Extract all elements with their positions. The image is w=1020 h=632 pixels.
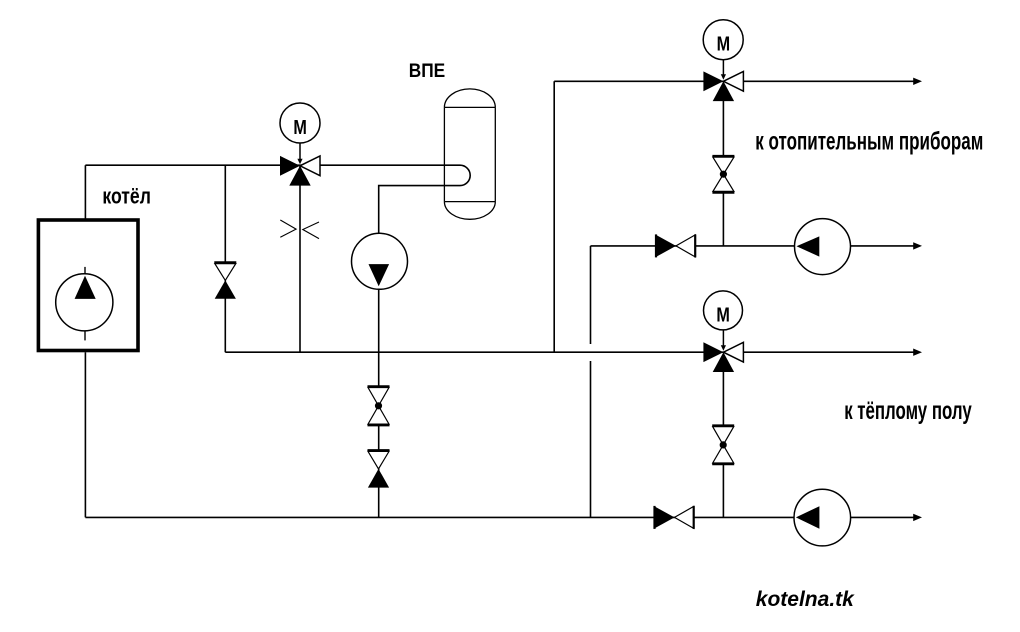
balancing valve V2 top bar xyxy=(368,385,390,387)
svg-text:M: M xyxy=(293,117,307,139)
balancing valve V5 lower cone xyxy=(713,174,734,191)
wire top supply manifold xyxy=(85,164,460,166)
shut-off valve V6 left cone (filled) xyxy=(656,235,676,257)
wire below 3-way valve V7 xyxy=(722,362,724,426)
wire middle manifold with junctions xyxy=(225,351,914,353)
pump P4 impeller triangle (flow left) xyxy=(796,506,820,529)
balancing symbol chevrons on V1 branch xyxy=(280,220,319,239)
pump P3 circle xyxy=(795,219,851,275)
shut-off valve V3 upper cone (open) xyxy=(368,451,389,469)
balancing valve V5 upper cone xyxy=(713,157,734,174)
balancing valve V2 bottom bar xyxy=(368,424,390,426)
svg-text:котёл: котёл xyxy=(102,184,150,209)
svg-text:M: M xyxy=(717,34,731,56)
motor actuator M3 circle xyxy=(704,291,743,330)
wire boiler bottom to bottom manifold xyxy=(84,352,86,517)
wire top-right supply line xyxy=(554,80,914,82)
svg-text:M: M xyxy=(716,304,730,326)
balancing valve V8 bottom bar xyxy=(712,463,734,465)
shut-off valve V3 lower cone (filled) xyxy=(368,469,389,488)
wire tank inlet loop (notch) xyxy=(460,165,470,185)
boiler pump P1 impeller triangle (flow up) xyxy=(75,276,96,299)
3-way valve V4 right port (open) xyxy=(723,71,743,91)
boiler pump P1 stub above xyxy=(84,267,86,278)
arrow supply to floor xyxy=(913,349,922,356)
wire V5 to return line xyxy=(722,193,724,246)
motor M3 stem arrowhead xyxy=(721,345,726,351)
balancing valve V8 center dot xyxy=(720,441,727,448)
shut-off valve V9 right bar xyxy=(693,506,695,529)
svg-text:kotelna.tk: kotelna.tk xyxy=(756,588,855,611)
arrow return from floor xyxy=(913,514,922,521)
balancing valve V2 center dot xyxy=(375,402,382,409)
pump P2 impeller triangle (flow down) xyxy=(369,264,390,286)
wire mid riser upper part xyxy=(590,246,592,344)
wire tank outlet to pump P2 xyxy=(379,186,460,234)
3-way valve V7 right port (open) xyxy=(723,342,743,362)
3-way mixing valve V1 right port (open) xyxy=(300,156,320,176)
3-way valve V7 left port (filled) xyxy=(703,342,723,362)
wire below 3-way valve V1 xyxy=(299,166,301,352)
pump P3 impeller triangle (flow left) xyxy=(797,236,820,256)
wire valve branch x=225 xyxy=(224,165,226,352)
balancing valve V2 lower cone xyxy=(368,406,389,424)
svg-text:ВПЕ: ВПЕ xyxy=(409,61,446,82)
expansion tank ВПЕ body xyxy=(444,89,495,219)
wire boiler top to manifold xyxy=(84,165,86,218)
motor actuator M1 circle xyxy=(280,103,320,143)
shut-off valve B1 lower cone (filled) xyxy=(215,280,236,298)
3-way valve V7 bottom port (filled) xyxy=(713,352,734,372)
boiler pump P1 stub below xyxy=(84,327,86,340)
wire pump P2 down to bottom manifold xyxy=(378,289,380,517)
boiler box xyxy=(38,220,138,351)
wire bottom return manifold xyxy=(85,516,913,518)
motor M3 stem xyxy=(722,330,724,346)
3-way mixing valve V1 left port (filled) xyxy=(280,156,300,176)
wire left riser xyxy=(553,81,555,352)
3-way valve V4 bottom port (filled) xyxy=(713,81,734,101)
shut-off valve V6 left bar xyxy=(655,234,657,257)
motor M2 stem arrowhead xyxy=(721,74,726,80)
balancing valve V5 top bar xyxy=(712,155,734,157)
balancing valve V8 top bar xyxy=(712,424,734,426)
svg-text:к тёплому полу: к тёплому полу xyxy=(844,397,972,425)
balancing valve V5 center dot xyxy=(720,171,727,178)
shut-off valve B1 top bar xyxy=(214,261,236,263)
shut-off valve V9 left cone (filled) xyxy=(655,506,675,528)
boiler pump P1 circle xyxy=(56,274,113,331)
balancing valve V8 lower cone xyxy=(713,445,734,463)
wire mid riser lower part (crossing gap) xyxy=(590,361,592,517)
balancing valve V8 upper cone xyxy=(713,427,734,445)
svg-text:к отопительным приборам: к отопительным приборам xyxy=(755,127,983,155)
3-way mixing valve V1 bottom port (filled) xyxy=(289,166,310,186)
shut-off valve V6 right cone (open) xyxy=(676,235,695,257)
shut-off valve B1 upper cone (open) xyxy=(215,264,236,281)
wire return line y=246 xyxy=(591,245,914,247)
arrow supply to radiators xyxy=(913,78,922,85)
pump P2 circle xyxy=(352,233,408,289)
shut-off valve V9 left bar xyxy=(653,506,655,529)
3-way valve V4 left port (filled) xyxy=(703,71,723,91)
shut-off valve V3 top bar xyxy=(368,449,390,451)
motor M1 stem arrowhead xyxy=(297,159,302,165)
shut-off valve V9 right cone (open) xyxy=(675,506,694,528)
wire V8 to bottom manifold xyxy=(722,464,724,517)
motor M1 stem xyxy=(299,143,301,160)
pump P4 circle xyxy=(794,489,851,546)
balancing valve V5 bottom bar xyxy=(712,192,734,194)
wire right column V4 to V5 xyxy=(722,91,724,156)
motor M2 stem xyxy=(722,60,724,75)
motor actuator M2 circle xyxy=(703,20,743,60)
shut-off valve V6 right bar xyxy=(694,234,696,257)
balancing valve V2 upper cone xyxy=(368,388,389,406)
arrow return from radiators xyxy=(913,242,922,249)
